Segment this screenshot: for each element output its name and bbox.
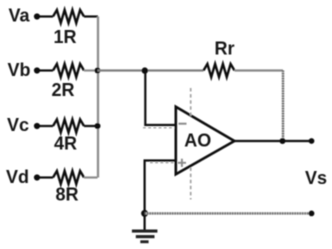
wire Vb lead-in [37, 69, 53, 71]
wire summing bus (grey vertical) [97, 17, 99, 178]
ground symbol [132, 230, 158, 244]
junction dot bus/Vb [95, 68, 101, 74]
terminal dot Va [34, 13, 40, 19]
wire 2R to bus (grey) [84, 69, 98, 71]
pin stub shadow non-inverting input (grey dashed) [150, 162, 176, 164]
junction dot ground net [141, 210, 148, 217]
svg-text:AO: AO [184, 131, 211, 151]
svg-text:4R: 4R [54, 134, 77, 154]
wire Vd lead-in [37, 176, 53, 178]
wire 1R to bus [84, 15, 98, 17]
wire Rr to feedback corner (grey) [235, 69, 284, 71]
resistor Rr [204, 64, 235, 77]
wire summing node to Rr [98, 69, 204, 71]
junction dot bus/Vc [95, 123, 101, 129]
terminal dot Vb [34, 67, 40, 73]
wire 8R to bus (grey) [84, 176, 98, 178]
svg-text:2R: 2R [51, 80, 74, 100]
resistor 8R [53, 171, 84, 184]
wire branch down to inverting input [145, 71, 175, 126]
resistor 1R [53, 10, 84, 23]
wire 4R to bus [84, 125, 98, 127]
junction dot output/feedback [280, 138, 286, 144]
svg-text:Vb: Vb [7, 60, 30, 80]
op-amp minus mark [179, 123, 187, 125]
terminal dot output end [309, 138, 315, 144]
svg-text:Va: Va [8, 6, 30, 26]
wire ground run to right (grey speckled) [145, 212, 312, 214]
resistor 2R [53, 64, 84, 77]
wire Vc lead-in [37, 125, 53, 127]
wire Va lead-in [37, 15, 53, 17]
op-amp U1 triangle [176, 107, 235, 175]
terminal dot ground run right end [309, 211, 315, 217]
junction dot inverting branch [142, 67, 148, 73]
power stub V+ (grey dashed) [190, 88, 192, 117]
svg-text:Vd: Vd [6, 167, 29, 187]
resistor 4R [53, 120, 84, 133]
terminal dot Vc [34, 123, 40, 129]
svg-text:Rr: Rr [214, 39, 234, 59]
svg-text:8R: 8R [55, 185, 78, 205]
wire feedback vertical (grey speckled) [282, 71, 284, 142]
svg-text:Vs: Vs [305, 168, 327, 188]
power stub V- (grey dashed) [190, 168, 192, 200]
svg-text:Vc: Vc [7, 115, 29, 135]
wire non-inverting input to ground net [145, 161, 176, 232]
pin stub shadow inverting input (grey dashed) [143, 127, 176, 129]
terminal dot Vd [34, 174, 40, 180]
wire op-amp output [234, 140, 311, 142]
svg-text:1R: 1R [53, 27, 76, 47]
op-amp plus mark [178, 159, 186, 167]
